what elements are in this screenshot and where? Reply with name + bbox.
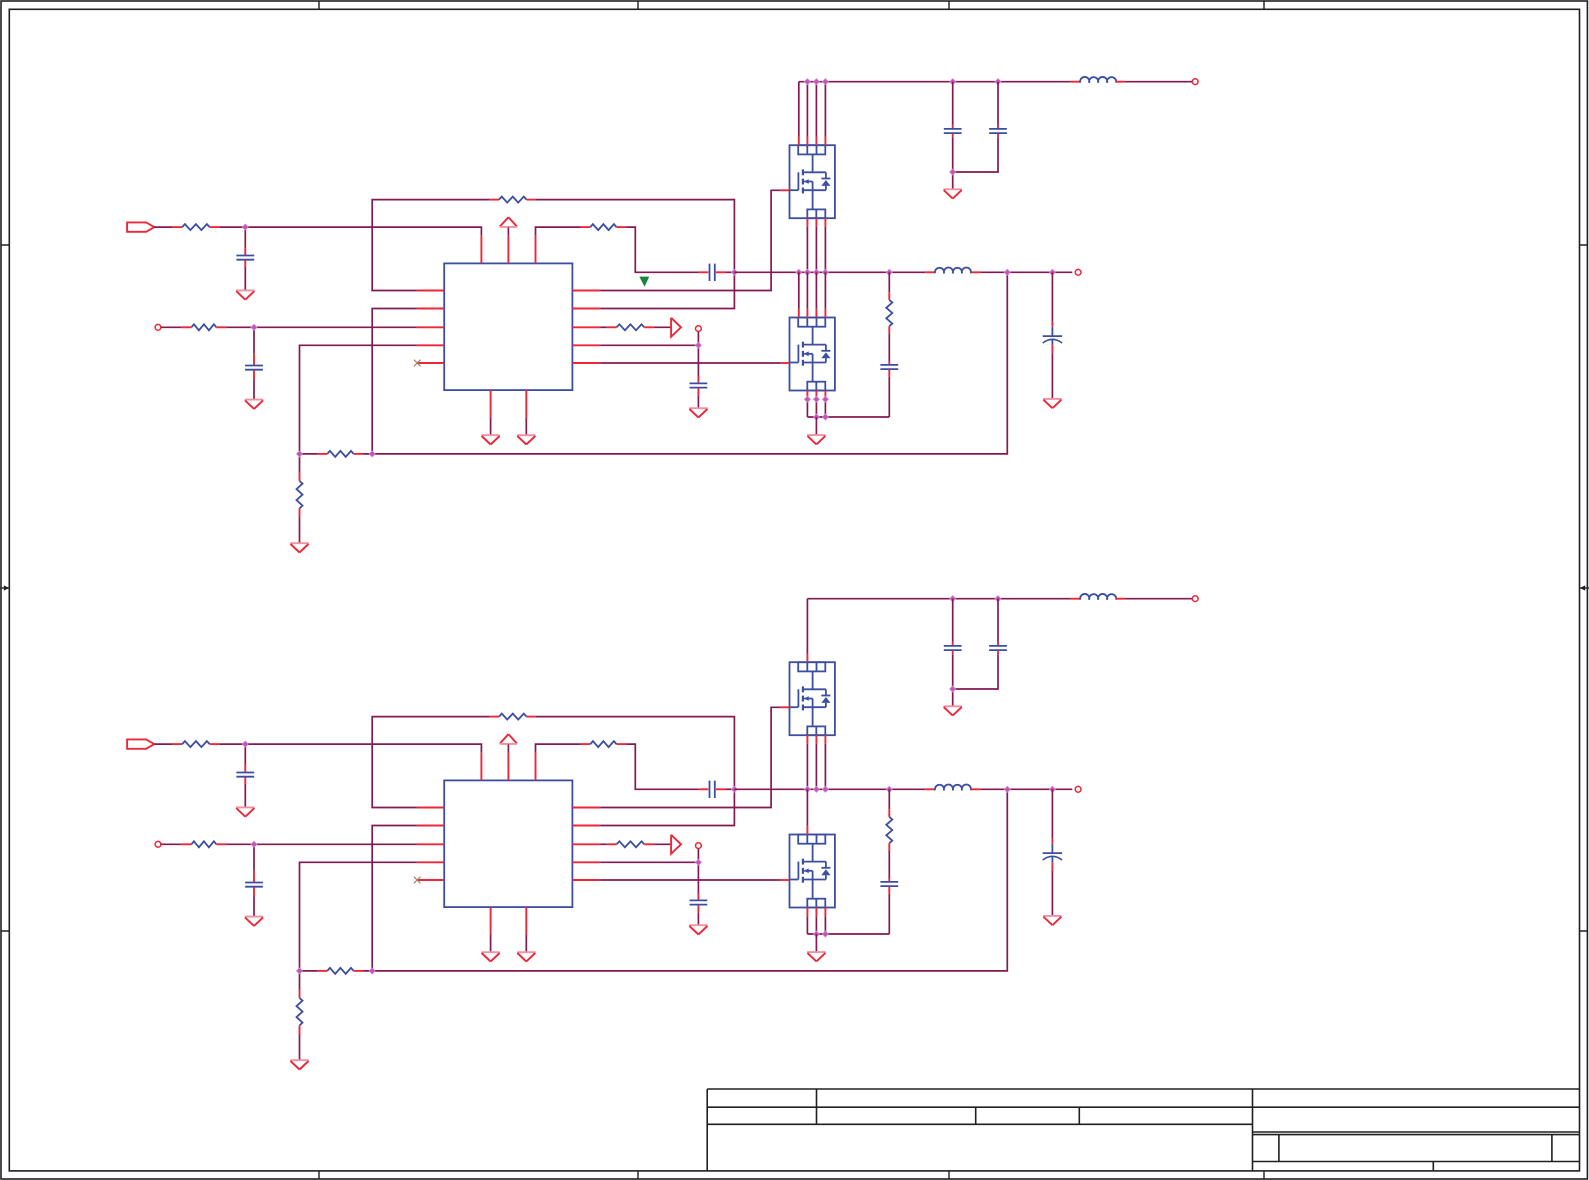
wire [600,326,607,328]
terminal J7 [1192,596,1198,602]
wire [536,200,735,309]
capacitor C4 [697,376,699,383]
terminal J5 (enable input) [155,841,161,847]
wire [1125,81,1192,83]
sheet zone ticks top [318,1,320,9]
node SW dots [804,786,810,792]
ground [943,188,962,190]
wire [697,332,699,346]
wire [697,396,699,409]
ground [807,951,826,953]
wire [536,744,581,752]
wire PGND rail [807,416,889,418]
sheet center arrow right [1580,587,1589,589]
wire [363,272,1007,454]
node COMP junction [731,786,737,792]
ground [943,705,962,707]
wire [507,744,509,752]
ground [481,951,500,953]
resistor R16 (fb bottom) [299,990,301,998]
resistor R2 [181,326,191,328]
resistor R5 (fb top) [317,453,327,455]
wire [888,894,890,934]
wire [154,743,172,745]
capacitor C6 [997,125,999,129]
wire [300,345,417,454]
title block [707,1088,1579,1090]
node cap gnd junction [950,169,956,175]
no-connect marker [414,360,421,367]
IC U1 (buck controller) [444,263,572,390]
wire [220,227,482,235]
wire [536,717,735,826]
wire Q2 drain verticals [798,272,800,309]
ground [517,434,536,436]
wire Q2 source verticals [806,916,808,934]
ground [236,289,255,291]
sheet center arrow left [0,587,9,589]
wire [299,971,301,990]
port P2 (supply input) [127,739,154,748]
wire [161,843,182,845]
wire [600,344,698,346]
wire VIN rail [799,81,1071,83]
node COMP junction [731,269,737,275]
ground [1043,915,1062,917]
power symbol VCC [500,734,509,743]
wire [372,309,417,454]
resistor R1 [172,226,182,228]
wire [888,272,890,292]
resistor R12 [181,843,191,845]
wire [372,200,490,291]
wire Q2 drain verticals [806,789,808,826]
wire [253,327,255,354]
wire BG [600,879,781,881]
node VIN junction [242,224,248,230]
sheet zone ticks right [1580,245,1588,931]
wire [525,418,527,435]
transistor Q4 [790,835,835,908]
node Q2 source dots [804,396,810,402]
capacitor C2 [253,354,255,365]
wire [952,599,954,642]
wire [654,326,671,328]
capacitor C13 (comp, series) [699,788,709,790]
ground [689,924,708,926]
resistor R14 (comp) [581,743,591,745]
wire [626,744,699,789]
node sense junction [695,342,701,348]
wire [726,788,735,790]
wire [697,913,699,926]
IC U2 pins [417,807,444,809]
node EN junction [251,841,257,847]
wire [299,454,301,473]
wire [253,380,255,400]
capacitor C18 (output, polarized) [1051,839,1053,844]
wire [300,453,318,455]
resistor R17 (pgood) [607,843,617,845]
transistor Q3 [790,662,835,735]
sheet zone ticks left [1,245,9,931]
capacitor C11 [244,765,246,773]
wire [244,784,246,808]
inductor L4 [925,788,935,790]
wire [300,862,417,971]
node FB junction 2 [369,968,375,974]
capacitor C17 (snubber) [888,878,890,881]
wire [697,345,699,376]
wire SW rail [734,271,925,273]
wire [980,788,1072,790]
ground [689,407,708,409]
node cap gnd junction [950,686,956,692]
wire SW verticals (Q1 source) [806,744,808,789]
ground [290,1059,309,1061]
wire PGND rail [807,933,889,935]
resistor R18 (snubber) [888,809,890,817]
node cout junction [1049,786,1055,792]
node VOUT junction [1004,269,1010,275]
transistor Q2 [790,318,835,391]
wire [536,227,581,235]
wire [1051,354,1053,399]
wire [1125,598,1192,600]
wire TG [600,190,781,290]
wire [372,717,490,808]
wire [952,689,954,706]
inductor L1 [1071,81,1081,83]
wire Q2 source verticals [806,399,808,417]
port P1 (supply input) [127,222,154,231]
wire [300,970,318,972]
no-connect marker [414,877,421,884]
resistor R8 (snubber) [888,292,890,300]
capacitor C8 (output, polarized) [1051,322,1053,327]
wire VIN rail [807,598,1070,600]
wire [154,226,172,228]
transistor Q1 [790,145,835,218]
Q4 pins [806,826,808,835]
capacitor C14 [697,893,699,900]
wire [253,844,255,871]
wire [815,934,817,952]
IC U1 pins [417,290,444,292]
terminal J6 [696,843,702,849]
sheet zone ticks bottom [318,1171,320,1179]
Q1 drain pins [798,137,800,146]
resistor R13 (feedback loop) [490,716,499,718]
wire [220,744,482,752]
wire [244,744,246,764]
node cout junction [1049,269,1055,275]
terminal J3 [1192,79,1198,85]
node VOUT junction [1004,786,1010,792]
wire [226,843,417,845]
wire [525,935,527,952]
wire SW rail [734,788,925,790]
wire [726,271,735,273]
off-page arrow PG1 [671,318,681,337]
wire [1051,789,1053,838]
wire [697,862,699,893]
wire [161,326,182,328]
wire [697,849,699,863]
node sense junction [695,859,701,865]
Q2 gate pin [781,362,790,364]
wire [490,935,492,952]
inductor L3 [1071,598,1081,600]
resistor R3 (feedback loop) [490,199,499,201]
terminal J2 [696,326,702,332]
capacitor C15 [952,642,954,646]
node rail dots [804,79,810,85]
wire [997,82,999,125]
wire [888,377,890,417]
wire [600,861,698,863]
resistor R11 [172,743,182,745]
resistor R15 (fb top) [317,970,327,972]
wire [953,654,998,689]
wire [299,1035,301,1061]
wire [654,843,671,845]
wire [507,227,509,235]
wire [226,326,417,328]
off-page arrow PG2 [671,835,681,854]
ground [290,542,309,544]
Q4 gate pin [781,879,790,881]
ground [807,434,826,436]
wire [299,518,301,544]
wire VIN rail verticals [798,82,800,137]
terminal J4 [1075,269,1081,275]
power symbol VCC [500,217,509,226]
wire [952,172,954,189]
wire [888,789,890,809]
wire [952,82,954,125]
wire TG [600,707,781,807]
capacitor C3 (comp, series) [699,271,709,273]
wire [815,417,817,435]
node rail dots [950,596,956,602]
wire [244,267,246,291]
wire [953,137,998,172]
capacitor C16 [997,642,999,646]
node VIN junction [242,741,248,747]
terminal J8 [1075,786,1081,792]
capacitor C7 (snubber) [888,361,890,364]
wire [997,599,999,642]
wire [244,227,246,247]
node FB junction 2 [369,451,375,457]
terminal J1 (enable input) [155,324,161,330]
wire [1051,272,1053,321]
directive marker (green) [639,277,649,287]
Q1 gate pin [781,189,790,191]
resistor R7 (pgood) [607,326,617,328]
wire BG [600,362,781,364]
node SW dots [796,269,802,275]
wire [372,826,417,971]
node PGND dots [813,414,819,420]
wire [490,418,492,435]
wire [888,333,890,361]
node FB junction 1 [297,968,303,974]
ground [517,951,536,953]
Q2 pins [798,309,800,318]
ground [481,434,500,436]
wire VIN rail verticals [806,599,808,654]
wire [600,843,607,845]
resistor R4 (comp) [581,226,591,228]
wire [626,227,699,272]
IC U2 (buck controller) [444,780,572,907]
capacitor C12 [253,871,255,882]
ground [1043,398,1062,400]
capacitor C1 [244,248,246,256]
wire [888,850,890,878]
capacitor C5 [952,125,954,129]
inductor L2 [925,271,935,273]
wire [1051,871,1053,916]
ground [236,806,255,808]
wire [980,271,1072,273]
node PGND dots [813,931,819,937]
Q3 gate pin [781,706,790,708]
ground [245,916,264,918]
ground [245,399,264,401]
Q3 drain pins [806,654,808,663]
resistor R6 (fb bottom) [299,473,301,481]
wire [253,897,255,917]
node FB junction 1 [297,451,303,457]
node EN junction [251,324,257,330]
wire [363,789,1007,971]
wire SW verticals (Q1 source) [806,227,808,272]
